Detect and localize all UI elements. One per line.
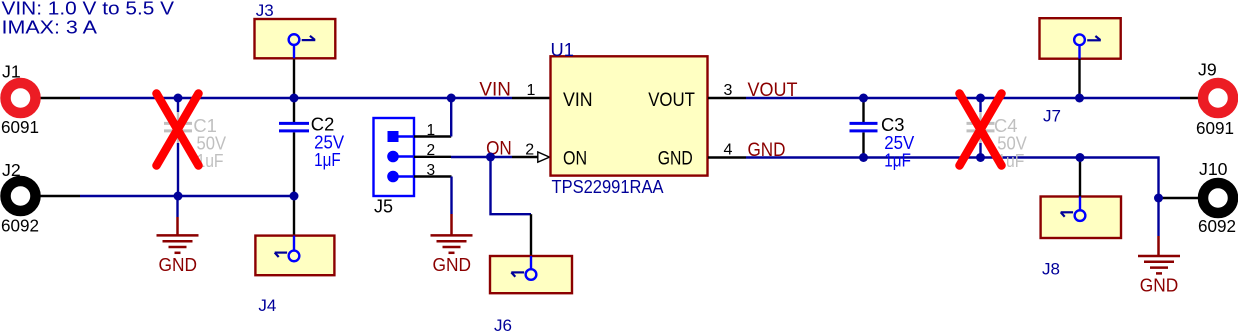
svg-text:6092: 6092 [1,216,39,236]
svg-text:J9: J9 [1198,60,1217,80]
wire GND rail right [746,158,1159,237]
node GND-C3 [859,153,868,162]
header J7 [1040,18,1121,125]
node VIN-C1 [174,94,183,103]
connector J10 [1203,183,1233,213]
node ON junction [486,153,495,162]
capacitor C4 (DNP gray) [967,112,995,143]
connector J9 [1203,83,1233,113]
node VOUT-J7 [1075,94,1084,103]
svg-text:J8: J8 [1042,260,1060,279]
header J8 [1041,197,1121,279]
node GND-C1 [174,192,183,201]
capacitor C3 [850,122,878,125]
J5 pin1 wire [393,135,414,137]
svg-text:GND: GND [658,149,693,170]
svg-text:6092: 6092 [1198,216,1236,236]
svg-text:J5: J5 [374,197,393,217]
header J4 [255,236,334,315]
wire to J10 [1159,197,1199,199]
J7 stub wire [1078,59,1080,98]
svg-text:J3: J3 [256,1,274,20]
svg-text:3: 3 [724,82,733,99]
svg-text:VOUT: VOUT [648,90,695,111]
wire GND rail J2 [40,195,80,197]
capacitor C2 [279,122,309,125]
connector J1 [6,83,36,113]
DNP X over C4 [960,94,1002,166]
svg-text:J10: J10 [1199,159,1228,179]
svg-text:TPS22991RAA: TPS22991RAA [552,176,665,197]
op IC U1 TPS22991RAA [551,39,708,197]
J5 pin3 wire [393,175,414,177]
svg-text:ON: ON [563,149,587,170]
header J5 [374,118,415,217]
connector J2 [6,181,36,211]
header J6 [490,256,572,335]
svg-text:6091: 6091 [1,117,39,137]
wire C2 / J3 / J4 branch [293,58,295,122]
svg-text:1μF: 1μF [884,150,911,170]
svg-text:GND: GND [433,254,472,275]
U1 pin 4 wire [708,156,746,158]
node GND-C2/J4 [290,192,299,201]
ground symbol GND2 (J5 pin3) [431,214,473,275]
wire C3 branch [862,98,864,122]
svg-text:GND: GND [159,254,198,275]
node VIN-J5 [447,94,456,103]
node GND-C4 [976,153,985,162]
svg-text:C2: C2 [311,115,335,135]
header J3 [255,1,336,58]
svg-text:1μF: 1μF [314,150,341,170]
ground symbol GND1 (left) [157,196,199,275]
wire C1 branch [177,98,179,112]
svg-text:GND: GND [1140,275,1179,296]
node VOUT-C4 [976,94,985,103]
svg-text:3: 3 [427,162,436,179]
ground symbol GND3 (right) [1138,236,1180,296]
svg-text:J7: J7 [1043,107,1061,126]
J8 stub wire [1079,158,1081,197]
U1 pin 2 wire with input triangle [512,156,538,158]
U1 pin 1 wire [512,97,550,99]
node GND-J8 [1076,153,1085,162]
wire ON net to J6 [491,157,532,214]
svg-text:J6: J6 [494,316,512,331]
svg-text:U1: U1 [551,39,574,60]
svg-text:IMAX: 3 A: IMAX: 3 A [2,16,98,37]
capacitor C1 (DNP gray) [164,112,192,143]
svg-text:2: 2 [427,142,436,159]
wire C4 branch [979,98,981,112]
svg-text:J1: J1 [2,62,21,82]
svg-text:6091: 6091 [1196,118,1234,138]
svg-text:VIN: VIN [479,78,511,100]
svg-text:J2: J2 [2,160,21,180]
node VOUT-C3 [859,94,868,103]
svg-text:2: 2 [525,141,534,158]
wire VOUT rail [746,97,1180,99]
svg-text:VIN: VIN [563,90,593,111]
DNP X over C1 [157,94,199,166]
svg-text:1: 1 [427,122,436,139]
svg-text:J4: J4 [258,296,276,315]
node VIN-C2/J3 [290,94,299,103]
svg-text:1: 1 [527,82,536,99]
U1 pin 3 wire [708,97,746,99]
svg-text:4: 4 [724,142,733,159]
svg-text:C3: C3 [881,115,905,135]
J5 pin2 wire [393,155,414,157]
node GND-J10 [1154,194,1163,203]
wire VIN rail J1 to U1 [40,97,80,99]
